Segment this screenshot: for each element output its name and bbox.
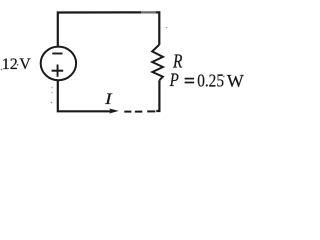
svg-text:V: V [19,56,31,73]
svg-text:0.25: 0.25 [197,70,224,90]
svg-text:P: P [169,70,179,91]
svg-text:I: I [104,90,113,108]
svg-text:W: W [227,71,244,91]
svg-text:12: 12 [2,56,18,73]
